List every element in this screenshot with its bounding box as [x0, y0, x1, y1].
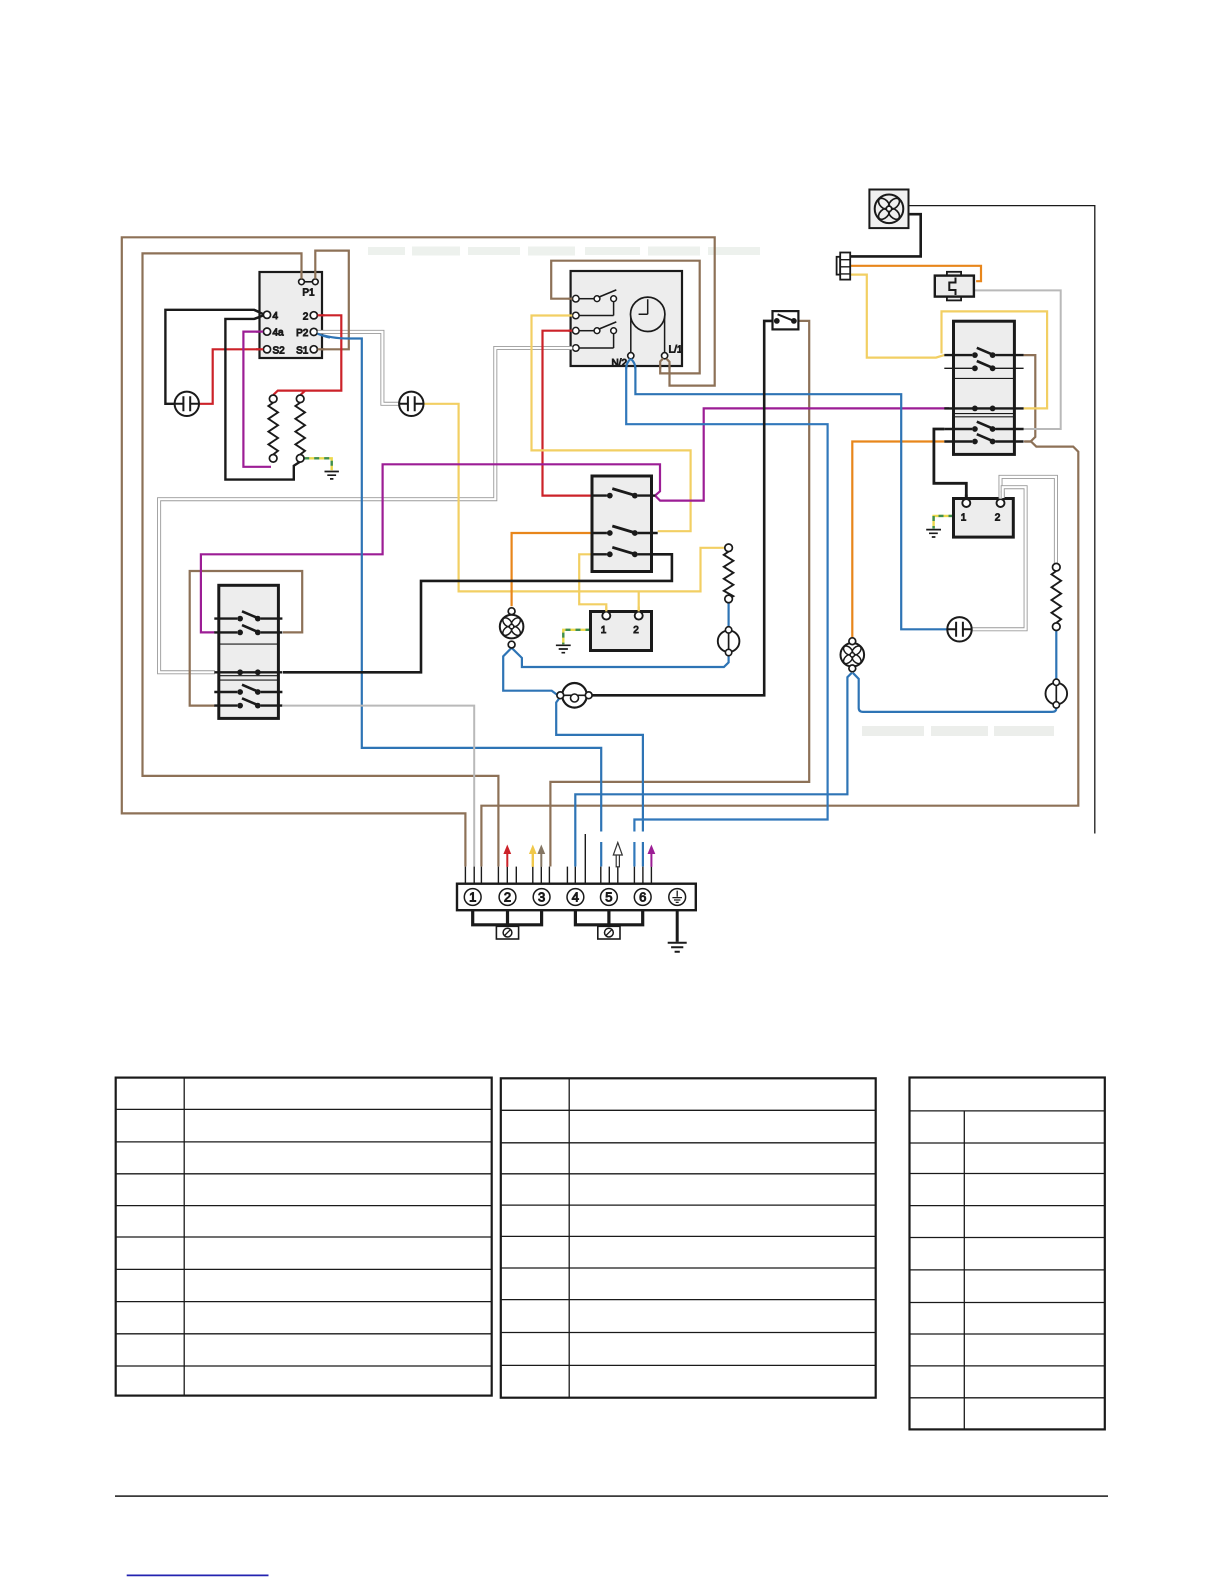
svg-text:2: 2 [303, 311, 309, 322]
energy regulator box [260, 272, 323, 358]
svg-text:4: 4 [572, 890, 579, 905]
wire: red timer row3 to oven switch row1 left [543, 331, 591, 496]
wire: purple oven switch row1 right to selector row3 left [655, 408, 949, 500]
oven switch contact 3 [591, 553, 654, 555]
regulator pin S2 [263, 346, 270, 353]
svg-text:1: 1 [961, 513, 967, 524]
terminal strip [457, 884, 696, 911]
wire end overlays into relay2 pins [965, 495, 968, 499]
wire: brown selector row1 right to row5 right [1024, 355, 1036, 441]
grill selector switch box (left) [219, 585, 279, 718]
wire end overlays into relay1 pins [606, 607, 638, 612]
cooling fan box [869, 190, 908, 229]
wire: blue buzzer left pin down to terminal 6 [556, 699, 643, 867]
footer link underline [127, 1574, 269, 1576]
wire: white regulator P2 to lamp H2 [318, 332, 400, 404]
grill switch contact 5 [214, 704, 282, 706]
selector contact 2 [944, 367, 1023, 369]
timer switch row1 [573, 295, 580, 302]
bridge screw box 2 [598, 926, 620, 939]
wire: brown P1 right pin loop to S1 [315, 251, 349, 350]
terminal 1 [464, 889, 481, 906]
oven switch contact 2 [591, 532, 658, 534]
bridge terminals 4-6 [575, 910, 642, 925]
timer row1-row2 link [579, 302, 613, 316]
wire: yellow lamp H2 to thermostat resistor R3 top, branch to relay pin2 [424, 404, 725, 611]
timer pin N/2 [628, 353, 634, 359]
svg-text:4: 4 [273, 311, 279, 322]
white wire crossing gaps on blue drops [601, 832, 643, 843]
wire: brown timer frame from timer row1 pin around to L/1 [551, 261, 700, 374]
svg-text:2: 2 [633, 625, 639, 636]
regulator pin S1 [310, 346, 317, 353]
ground symbol at relay2 [926, 530, 941, 537]
earth terminal lead and ground [676, 910, 679, 942]
timer motor lines to N/2 and L/1 [631, 317, 665, 353]
earth wire at resistor R2 bottom [304, 458, 332, 470]
wire: white relay2 pin2 to lamp E1 right [972, 487, 1026, 629]
wire: blue timer N/2 right leg to oven lamp E1 [631, 359, 947, 630]
arrow taupe at terminal 3 [537, 845, 545, 867]
wire end overlays at timer N/2 [631, 359, 636, 369]
terminal 3 [533, 889, 550, 906]
timer / clock box [571, 271, 682, 366]
wire: blue regulator P2 to terminal 5 [318, 333, 602, 866]
timer row3-row4 link [579, 334, 613, 348]
bridge terminals 1-3 [473, 910, 542, 925]
regulator pin 4 [263, 311, 270, 318]
oven fan M1 [500, 615, 524, 639]
wire: red regulator S2 to signal lamp H1 [199, 349, 263, 404]
timer clock face [631, 297, 665, 331]
wire: blue lamp E2 bottom to fan M1 right leg [512, 648, 729, 667]
signal lamp H1 [175, 392, 199, 416]
svg-text:P1: P1 [302, 288, 315, 299]
legend table 3 [910, 1078, 1105, 1430]
wire: purple grill row2 left to oven switch row1 right [201, 464, 660, 632]
wire: yellow oven switch row3 left to relay pin1 [579, 554, 606, 611]
oven selector switch box (centre) [592, 476, 652, 572]
legend table 2 [501, 1078, 876, 1397]
door switch [773, 311, 799, 329]
wire: brown grill switch frame row5 left to row2 right [190, 571, 303, 706]
ground symbol at relay1 [556, 645, 571, 652]
wire: blue lamp E3 bottom to fan M2 right leg [853, 673, 1057, 712]
arrow white at terminal 5 [613, 843, 622, 867]
terminal 5 [601, 889, 618, 906]
relay / thermostat box right [954, 499, 1014, 538]
wire: yellow connector to selector row1 left [851, 275, 945, 358]
svg-text:1: 1 [601, 625, 607, 636]
wire: black regulator pin4 to resistor R2 bottom [225, 316, 300, 480]
svg-text:3: 3 [538, 890, 545, 905]
wire: red regulator pin2 to hotplate resistor tops [273, 315, 341, 395]
grill switch contact 3 closed [214, 671, 282, 673]
terminal earth [669, 889, 686, 906]
signal lamp H3 [947, 617, 971, 641]
wire: black cooling fan to connector [851, 214, 921, 256]
wire: grey motor to selector row4 right [974, 290, 1061, 429]
wire: white timer row4 to grill row3 left [159, 348, 573, 672]
wire: brown outer border loop from terminal 1 around page to timer L/1 [122, 237, 715, 866]
wire: yellow timer row2 to oven switch row2 right [532, 316, 691, 532]
svg-text:2: 2 [504, 890, 511, 905]
oven switch row1 right stub [653, 494, 655, 496]
wire: grey grill row5 right to terminal 1 [283, 706, 474, 867]
svg-text:1: 1 [469, 890, 476, 905]
selector contact 4 [944, 428, 1023, 430]
terminal stubs [465, 834, 651, 884]
svg-text:4a: 4a [273, 328, 285, 339]
wire: black cooling fan to right side down [909, 206, 1095, 834]
hotplate resistor R2 [296, 395, 304, 403]
earth wire at relay2 [934, 516, 954, 529]
wire: brown door switch to terminal 3 [550, 321, 809, 867]
terminal 2 [499, 889, 516, 906]
regulator pin P2 [310, 328, 317, 335]
wire: white relay2 pin2 to resistor R4 top [1001, 477, 1056, 563]
wire: blue resistor R4 bottom to lamp E3 top [1055, 631, 1057, 679]
wire: orange oven switch row2 left to fan M1 [512, 533, 591, 606]
oven switch contact 1 [591, 494, 654, 496]
buzzer [562, 683, 587, 708]
ghost bleed-through text top [368, 247, 760, 256]
wire: blue resistor R3 bottom to lamp E2 top [727, 603, 729, 627]
svg-text:6: 6 [639, 890, 646, 905]
arrow red at terminal 2 [503, 845, 511, 867]
ghost bleed-through text middle right [862, 726, 1054, 736]
oven lamp E2 [718, 630, 740, 652]
regulator pin 4a [263, 328, 270, 335]
connector plug [837, 257, 841, 275]
wire: black grill row3 right to oven switch row3 right [283, 554, 672, 672]
terminal 4 [567, 889, 584, 906]
bridge screw box 1 [496, 926, 518, 939]
selector contact 5 [944, 440, 1023, 442]
svg-text:P2: P2 [296, 328, 309, 339]
wire end overlays into timer pins [569, 298, 573, 300]
legend table 1 [116, 1078, 492, 1396]
resistor R4 [1053, 563, 1061, 571]
grill switch contact 4 [214, 691, 282, 693]
oven fan M2 [841, 643, 865, 667]
svg-text:5: 5 [605, 890, 612, 905]
arrow purple at terminal 6 [648, 845, 656, 867]
regulator P1 terminals [303, 281, 314, 283]
relay / ignition box centre [591, 612, 652, 651]
footer rule [115, 1495, 1108, 1497]
ground symbol at resistors [325, 472, 339, 479]
wire end overlays into regulator P1 pins [302, 271, 316, 279]
selector contact 1 [944, 354, 1023, 356]
grill switch contact 2 [214, 631, 282, 633]
timer switch row3 [573, 327, 580, 334]
svg-text:S2: S2 [273, 345, 286, 356]
hotplate resistor R1 [269, 395, 277, 403]
wire: purple regulator 4a to resistor R1 bottom [243, 332, 271, 467]
motor / turbine component [947, 272, 961, 276]
regulator pin 2 [310, 312, 317, 319]
timer pin L/1 [662, 353, 668, 359]
terminal 6 [634, 889, 651, 906]
selector contact 3 closed [944, 407, 1023, 409]
function selector switch box (right) [954, 321, 1015, 454]
wire: brown selector row5 right to terminal 2 [481, 442, 1078, 867]
wire: brown inner loop from terminal 2 up left side to regulator P1 left pin [143, 253, 499, 866]
resistor R3 [725, 544, 733, 552]
wire: orange connector to motor [851, 266, 981, 281]
svg-text:N/2: N/2 [611, 358, 627, 369]
wire: orange selector row5 left to oven fan M2 [852, 442, 944, 638]
wire: blue fan M1 left leg to buzzer left pin [503, 648, 557, 695]
wire: light blue timer N/2 left leg to terminal 6 [626, 359, 827, 867]
grill switch contact 1 [214, 617, 282, 619]
earth wire at relay1 [563, 630, 590, 644]
wire end overlays at timer L/1 [660, 358, 669, 368]
wire: blue fan M2 left leg to terminal 4 [575, 673, 852, 867]
wire: yellow selector loop row1 left to row3 right [942, 311, 1048, 408]
wire: black selector row4 left to relay2 pin1 [934, 429, 966, 499]
signal lamp H2 [399, 392, 423, 416]
oven lamp E3 [1046, 683, 1068, 705]
arrow yellow at terminal 3 [529, 845, 537, 867]
wire: black regulator pin4 to signal lamp H1 left [165, 310, 263, 404]
svg-text:2: 2 [995, 513, 1001, 524]
svg-text:L/1: L/1 [669, 345, 683, 356]
svg-text:S1: S1 [296, 345, 309, 356]
wire end overlays into regulator pins [254, 310, 263, 319]
wire: black buzzer right pin to door switch [592, 321, 776, 695]
